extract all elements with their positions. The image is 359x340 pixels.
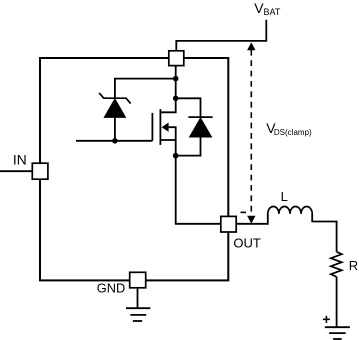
wire Q1 source lead bbox=[160, 140, 175, 156]
wire Q1 body lead to source bbox=[169, 127, 176, 140]
terminal square OUT bbox=[221, 216, 236, 232]
wire gate lead bbox=[76, 140, 152, 142]
battery plus sign bbox=[323, 316, 330, 323]
zener diode D1 body bbox=[104, 99, 125, 118]
wire body diode cathode branch bbox=[176, 98, 201, 117]
svg-text:OUT: OUT bbox=[233, 235, 261, 250]
svg-text:GND: GND bbox=[97, 281, 125, 296]
svg-text:BAT: BAT bbox=[264, 7, 281, 17]
resistor R bbox=[331, 252, 342, 277]
body diode D2 body bbox=[190, 118, 212, 137]
transistor Q1 gate bar bbox=[151, 113, 153, 141]
arrowhead down (to OUT wire) bbox=[247, 216, 255, 224]
terminal square VBAT bbox=[169, 51, 184, 66]
ground symbol (battery return) bbox=[325, 327, 350, 339]
wire body diode anode branch bbox=[176, 137, 201, 156]
measurement arrow VDS(clamp) dashed line bbox=[250, 50, 252, 216]
wire resistor to battery ground bbox=[336, 277, 338, 327]
svg-text:R: R bbox=[349, 258, 358, 273]
device outline box U1 bbox=[40, 58, 228, 280]
node dot (body-diode junction on drain rail) bbox=[173, 96, 179, 102]
node dot (source / diode anode junction) bbox=[173, 153, 179, 159]
wire zener cathode to drain rail bbox=[115, 79, 176, 99]
wire VBAT lead (terminal to VBAT label) bbox=[176, 20, 266, 51]
minus sign at OUT side of measurement arrow bbox=[241, 211, 247, 213]
wire IN lead bbox=[0, 170, 32, 172]
wire OUT terminal to inductor bbox=[236, 214, 268, 224]
body diode D2 cathode bar bbox=[188, 116, 212, 118]
terminal square IN bbox=[32, 163, 48, 179]
svg-text:L: L bbox=[281, 189, 288, 204]
transistor Q1 body arrow bbox=[162, 123, 169, 132]
wire GND terminal to ground bbox=[137, 288, 139, 308]
node dot (zener junction on drain rail) bbox=[173, 76, 179, 82]
wire drain rail (VBAT terminal down to MOSFET drain) bbox=[160, 66, 175, 113]
wire zener anode to gate node bbox=[114, 117, 116, 140]
wire source to OUT terminal bbox=[176, 156, 221, 224]
wire inductor to resistor bbox=[312, 214, 336, 252]
zener diode D1 cathode bar bbox=[99, 93, 131, 104]
node dot (gate / zener anode junction) bbox=[112, 138, 118, 144]
terminal square GND bbox=[130, 272, 146, 288]
inductor L bbox=[268, 206, 312, 213]
arrowhead up (to VBAT wire) bbox=[247, 42, 255, 50]
svg-text:DS(clamp): DS(clamp) bbox=[274, 128, 312, 137]
svg-text:IN: IN bbox=[13, 153, 27, 168]
transistor Q1 channel bar bbox=[159, 109, 161, 145]
ground symbol (GND pin) bbox=[126, 308, 150, 321]
